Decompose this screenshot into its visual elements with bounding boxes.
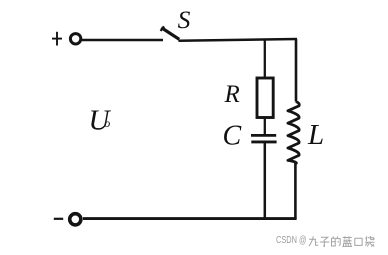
wire: top of RC branch (264, 39, 266, 79)
svg-text:L: L (307, 119, 324, 151)
minus polarity mark (54, 218, 63, 220)
wire: terminal to switch (82, 39, 163, 42)
svg-text:C: C (223, 120, 242, 151)
wire: bottom return wire (83, 217, 297, 220)
svg-text:CSDN @: CSDN @ (276, 234, 307, 246)
positive terminal (70, 34, 80, 44)
wire: right branch lower segment (294, 163, 297, 219)
plus polarity mark (52, 32, 62, 46)
wire: resistor to capacitor (264, 117, 266, 135)
capacitor C (251, 135, 277, 142)
wire: switch to top-right corner (179, 39, 298, 41)
watermark glyphs (309, 236, 374, 246)
wire: right branch upper segment (295, 39, 298, 102)
resistor R (box) (257, 78, 273, 118)
wire: capacitor to bottom wire (264, 142, 267, 219)
switch S (161, 27, 180, 40)
svg-text:S: S (178, 5, 191, 34)
svg-text:R: R (224, 81, 240, 108)
inductor L (zigzag coil) (288, 102, 299, 164)
svg-text:o: o (104, 116, 110, 130)
negative terminal (70, 214, 81, 225)
